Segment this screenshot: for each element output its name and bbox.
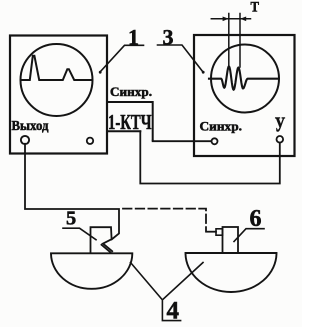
detector head 6 side nub — [216, 229, 223, 235]
oscilloscope 3 screen — [211, 45, 279, 113]
svg-text:У: У — [275, 113, 286, 137]
oscilloscope 3 waveform: damped burst — [209, 66, 279, 90]
terminal Синхр of oscilloscope 3 — [212, 138, 218, 144]
oscilloscope 1 enclosure — [10, 36, 107, 154]
svg-text:Синхр.: Синхр. — [200, 120, 243, 134]
dimension arrowhead left — [223, 17, 229, 22]
svg-text:4: 4 — [167, 298, 180, 325]
detector head 6 body — [223, 227, 239, 253]
svg-text:1: 1 — [128, 25, 139, 50]
oscilloscope 1 waveform: two pulses — [22, 56, 93, 80]
wire: Выход terminal to horn feed 5 — [25, 144, 119, 240]
label 1 leader tip dot — [99, 71, 102, 74]
dashed wire: to detector head 6 — [123, 209, 206, 232]
unlabeled terminal on oscilloscope 1 — [87, 138, 93, 144]
svg-text:3: 3 — [163, 25, 174, 50]
svg-text:6: 6 — [250, 206, 262, 232]
period T marker: left extension line — [228, 14, 230, 67]
period T marker: right extension line — [239, 14, 241, 68]
svg-text:Синхр.: Синхр. — [110, 85, 152, 99]
wire stub into detector head 6 — [207, 231, 217, 233]
oscilloscope 3 enclosure — [194, 35, 295, 156]
svg-text:Т: Т — [251, 0, 260, 16]
label 6 leader line — [234, 229, 264, 242]
oscilloscope 1 screen — [21, 44, 93, 116]
period T dimension line — [211, 18, 250, 20]
wire: 1-КТЧ block bottom to У input of oscilloscope 3 — [140, 131, 279, 183]
svg-text:1-КТЧ: 1-КТЧ — [108, 110, 152, 134]
horn feed 5 — [91, 227, 113, 253]
dish antenna 4 right reflector — [186, 253, 277, 292]
label 5 leader line — [63, 228, 96, 240]
terminal У — [277, 136, 284, 143]
block 1-КТЧ outline — [108, 102, 153, 141]
label 1 leader line — [100, 45, 144, 72]
label 3 leader line — [158, 45, 204, 72]
svg-text:5: 5 — [66, 208, 76, 230]
terminal Выход — [21, 136, 29, 144]
label 3 leader tip dot — [202, 71, 205, 74]
dish antenna 4 left reflector — [51, 253, 132, 289]
label 4 leader lines — [131, 263, 204, 321]
svg-text:Выход: Выход — [12, 119, 49, 134]
wire: 1-КТЧ block to Синхр input of oscilloscope 3 — [153, 140, 211, 143]
dimension arrowhead right — [240, 17, 246, 22]
